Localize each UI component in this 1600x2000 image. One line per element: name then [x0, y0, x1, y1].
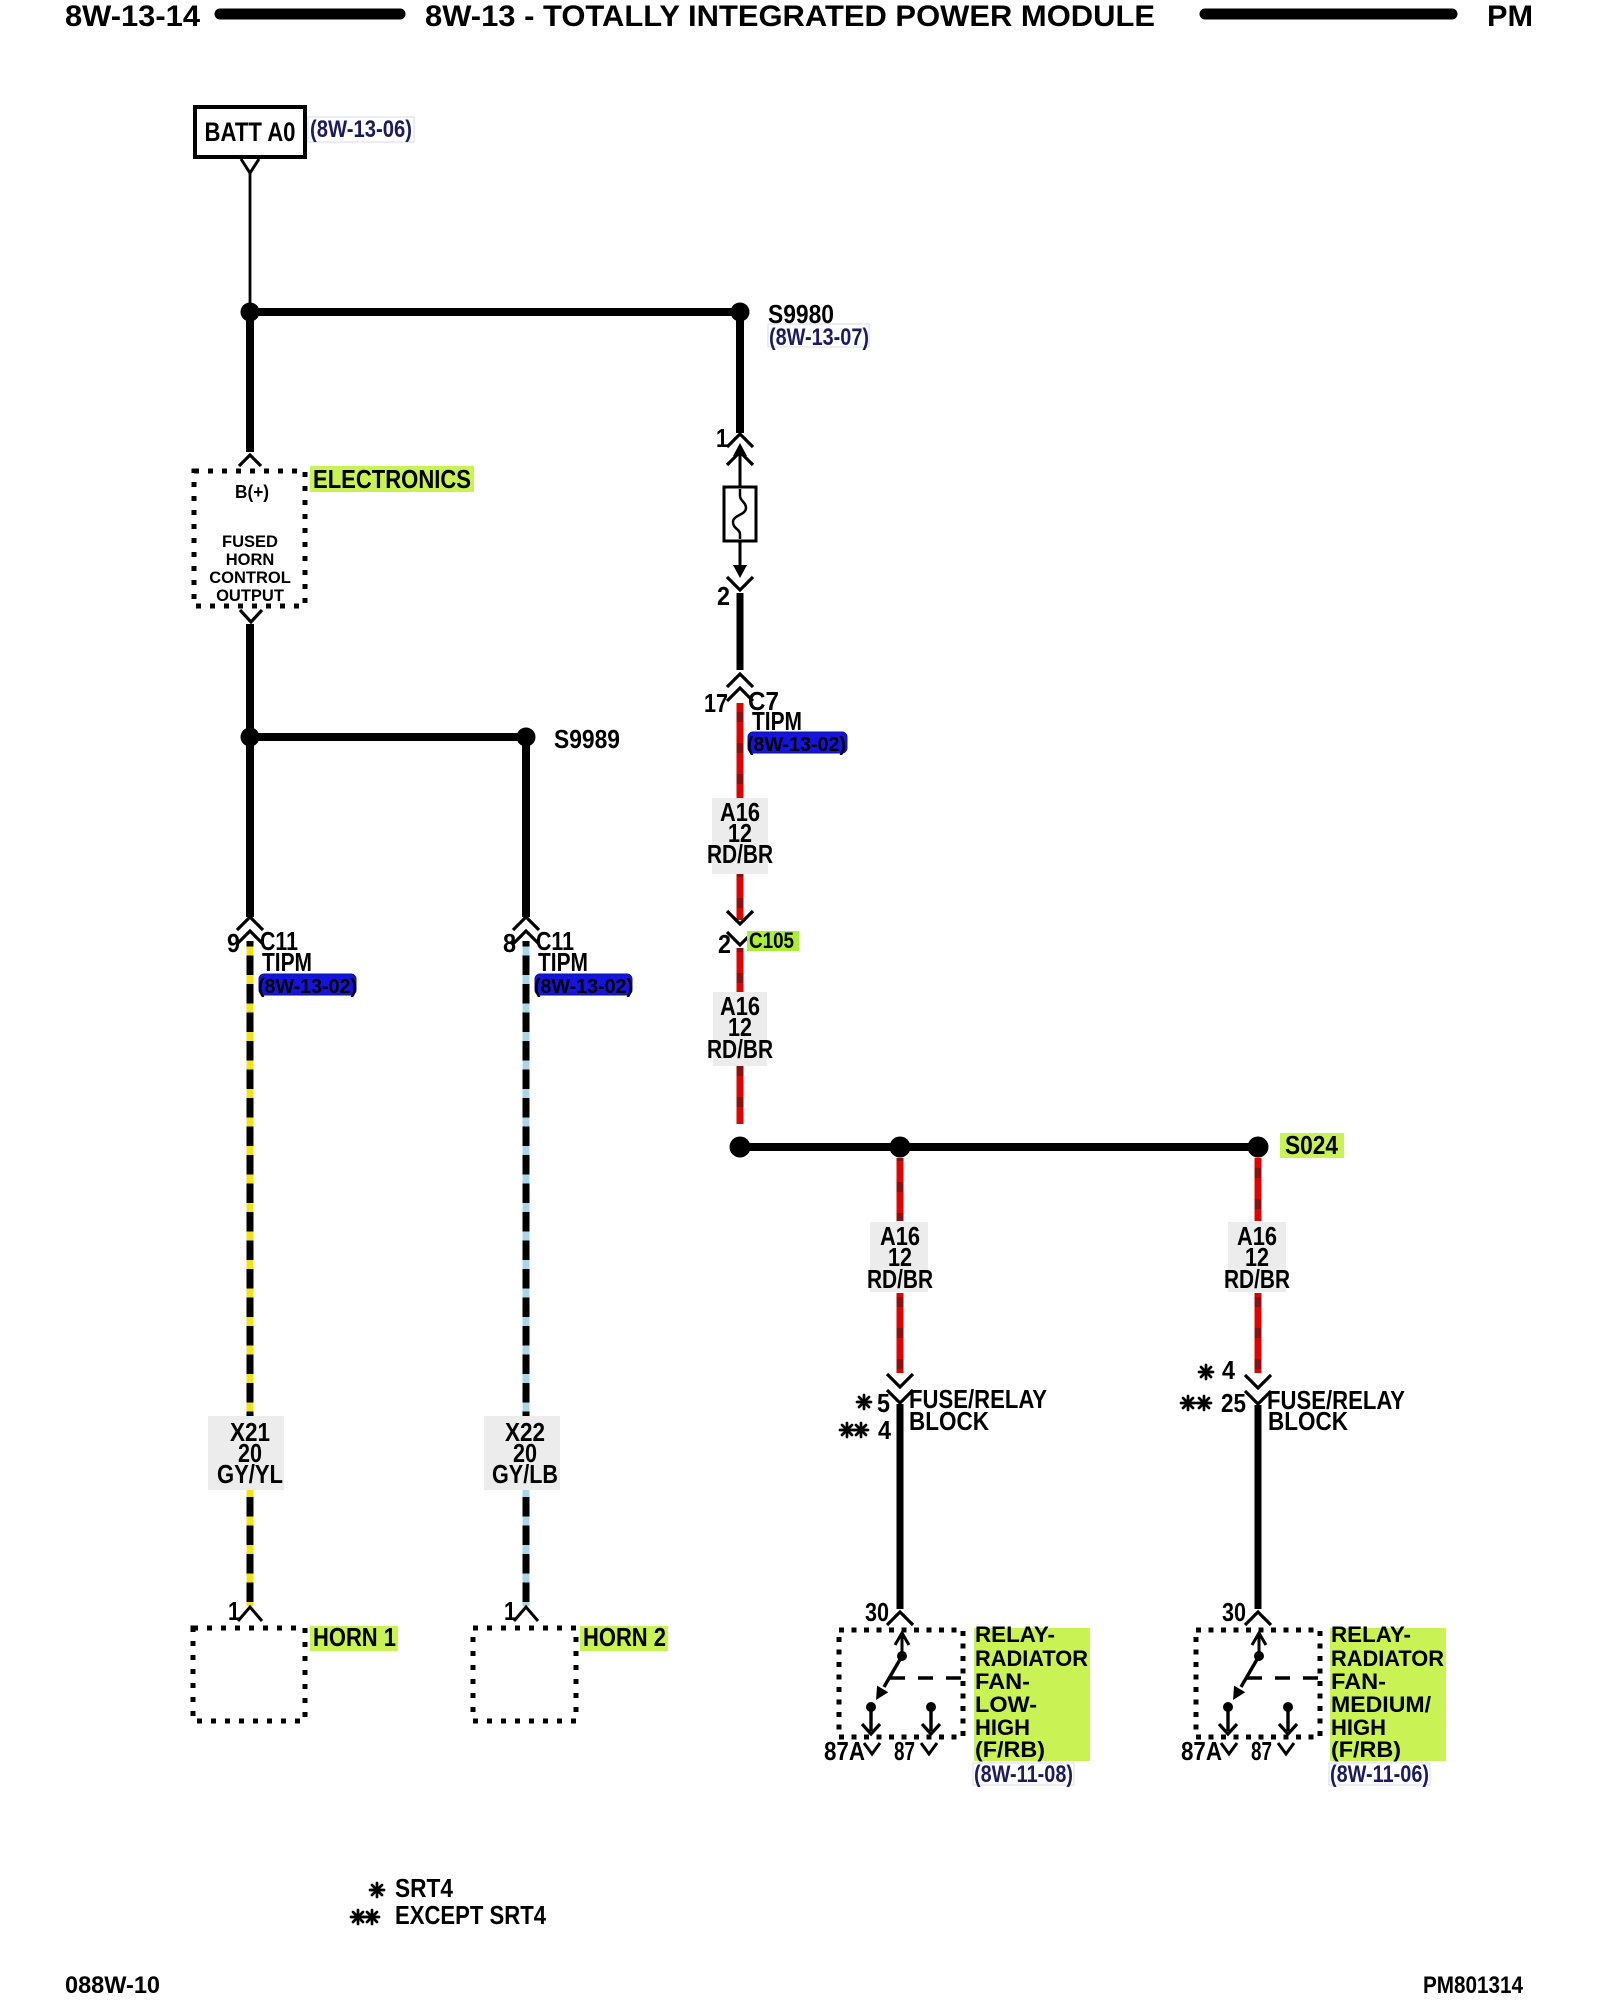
wire splice bus S9980 [250, 308, 740, 316]
svg-text:B(+): B(+) [235, 482, 269, 502]
relay internal switch (medium/high) [1219, 1633, 1320, 1734]
svg-text:25: 25 [1221, 1388, 1246, 1418]
connector pin 2 arrow and chevron [727, 565, 753, 590]
connector pin 1 arrow and chevron [727, 443, 753, 465]
svg-text:S9989: S9989 [554, 724, 620, 754]
connector chevron into relay (low) [887, 1612, 913, 1625]
wire BATT A0 to splice S9980 [249, 173, 252, 304]
svg-text:FAN-: FAN- [1331, 1669, 1386, 1694]
svg-text:4: 4 [878, 1415, 891, 1445]
svg-text:(8W-11-06): (8W-11-06) [1330, 1761, 1429, 1788]
svg-text:87A: 87A [824, 1736, 865, 1766]
svg-text:87A: 87A [1181, 1736, 1222, 1766]
svg-text:PM801314: PM801314 [1423, 1972, 1524, 1999]
connector chevron out of TIPM [240, 610, 262, 622]
junction dot S9980 [731, 303, 750, 322]
svg-text:TIPM: TIPM [538, 947, 588, 977]
header rule right [1205, 9, 1452, 20]
wire A16 continuation (fan medium/high) [1255, 1293, 1262, 1373]
connector chevron into HORN 2 [514, 1607, 538, 1621]
pin 87 (medium/high relay) [1251, 1736, 1294, 1766]
connector symbol below BATT A0 [241, 159, 259, 173]
svg-text:87: 87 [894, 1736, 915, 1766]
HORN 1 box [193, 1628, 305, 1721]
svg-text:FUSED: FUSED [222, 533, 278, 551]
svg-text:RD/BR: RD/BR [707, 1034, 773, 1064]
junction dot S9989 [517, 728, 536, 747]
TIPM fused horn control output box [194, 471, 305, 606]
junction dot S024 [1248, 1137, 1269, 1158]
svg-text:PM: PM [1487, 0, 1533, 33]
svg-text:(8W-13-02): (8W-13-02) [258, 976, 357, 998]
reference link (8W-13-02) horn 1 [258, 974, 357, 998]
pin 87A (low relay) [824, 1736, 880, 1766]
svg-text:SRT4: SRT4 [395, 1873, 453, 1903]
wire S9989 to C11 pin 8 [522, 737, 530, 917]
svg-text:RELAY-: RELAY- [975, 1622, 1055, 1647]
wire S9980 to TIPM B(+) [246, 312, 254, 452]
wire fuse/relay block to relay pin 30 (medium/high) [1255, 1405, 1262, 1609]
connector C7 chevrons [727, 674, 753, 701]
svg-text:BLOCK: BLOCK [909, 1406, 989, 1436]
svg-text:TIPM: TIPM [262, 947, 312, 977]
label RELAY-RADIATOR FAN-LOW-HIGH (F/RB) [974, 1622, 1090, 1762]
svg-text:LOW-: LOW- [975, 1692, 1037, 1717]
fuse element [724, 487, 756, 541]
junction dot left end of S9989 bus [241, 728, 260, 747]
footnote stars 25 (except SRT4 cavity right) [1181, 1388, 1246, 1418]
label A16 12 RD/BR (upper) [707, 797, 773, 874]
wire A16 12 RD/BR S024 to fuse/relay block (medium/high) [1255, 1158, 1262, 1221]
label A16 12 RD/BR (lower) [707, 991, 773, 1066]
label HORN 2 [580, 1622, 668, 1652]
svg-text:8: 8 [503, 928, 516, 958]
svg-text:4: 4 [1222, 1355, 1235, 1385]
footnote stars 4 (except SRT4 cavity) [840, 1415, 891, 1445]
connector chevron into relay (medium/high) [1245, 1612, 1271, 1625]
reference link (8W-13-02) C7 [747, 732, 847, 756]
label FUSE/RELAY BLOCK (low) [909, 1384, 1047, 1436]
reference link (8W-11-08) [973, 1761, 1074, 1788]
wire out of fuse [739, 541, 742, 566]
svg-text:MEDIUM/: MEDIUM/ [1331, 1692, 1431, 1717]
junction dot C105 drop at S024 bus [730, 1137, 751, 1158]
wire A16 12 RD/BR C7 to C105 [737, 703, 744, 920]
svg-text:(8W-13-07): (8W-13-07) [769, 324, 869, 351]
label S024 [1280, 1130, 1344, 1160]
svg-text:17: 17 [704, 688, 728, 718]
wire into fuse [739, 452, 742, 487]
label C105 [747, 928, 799, 953]
svg-text:2: 2 [718, 929, 731, 959]
connector C105 chevrons [727, 911, 753, 945]
svg-text:RADIATOR: RADIATOR [1331, 1646, 1444, 1671]
junction dot fan low branch [890, 1137, 911, 1158]
connector chevron into TIPM [239, 455, 261, 466]
svg-text:RD/BR: RD/BR [1224, 1264, 1290, 1294]
wire TIPM to splice S9989 [246, 624, 254, 737]
reference link (8W-13-02) horn 2 [534, 974, 633, 998]
wire A16 12 RD/BR C105 to S024 [737, 948, 744, 1124]
wire splice bus S9989 [250, 733, 526, 741]
label A16 12 RD/BR (fan medium/high) [1224, 1221, 1290, 1294]
svg-text:HORN 1: HORN 1 [313, 1622, 396, 1652]
svg-text:S024: S024 [1285, 1130, 1338, 1160]
svg-text:(F/RB): (F/RB) [1331, 1737, 1401, 1762]
wire splice bus S024 [740, 1143, 1258, 1151]
connector chevron into HORN 1 [238, 1607, 262, 1621]
svg-text:BLOCK: BLOCK [1268, 1406, 1348, 1436]
svg-text:(8W-13-02): (8W-13-02) [534, 976, 633, 998]
svg-text:9: 9 [227, 928, 240, 958]
label ELECTRONICS [310, 464, 474, 494]
label FUSED HORN CONTROL OUTPUT [209, 533, 291, 605]
relay radiator fan medium/high box [1196, 1630, 1320, 1737]
svg-text:FAN-: FAN- [975, 1669, 1030, 1694]
reference link (8W-13-06) [308, 116, 414, 143]
svg-text:CONTROL: CONTROL [209, 569, 291, 587]
svg-text:8W-13 - TOTALLY INTEGRATED POW: 8W-13 - TOTALLY INTEGRATED POWER MODULE [425, 0, 1155, 33]
wire A16 12 RD/BR S024 to fuse/relay block (low) [897, 1158, 904, 1221]
svg-text:RD/BR: RD/BR [867, 1264, 933, 1294]
label FUSE/RELAY BLOCK (medium/high) [1267, 1385, 1405, 1436]
svg-text:OUTPUT: OUTPUT [216, 587, 284, 605]
connector pin 1 chevron [727, 434, 753, 447]
svg-text:EXCEPT SRT4: EXCEPT SRT4 [395, 1900, 546, 1930]
svg-text:2: 2 [717, 581, 730, 611]
svg-text:1: 1 [716, 423, 728, 453]
wire S9989 to C11 pin 9 [246, 737, 254, 917]
wire X21 20 GY/YL [247, 941, 254, 1606]
wire A16 continuation (fan low) [897, 1293, 904, 1373]
wire fuse/relay block to relay pin 30 (low) [897, 1404, 904, 1609]
connector fuse/relay block chevrons (low) [887, 1374, 913, 1403]
svg-text:(8W-13-02): (8W-13-02) [747, 734, 846, 756]
svg-text:BATT A0: BATT A0 [205, 117, 296, 147]
wire fuse to C7 [737, 593, 744, 670]
junction dot left end of S9980 bus [241, 303, 260, 322]
connector fuse/relay block chevrons (medium/high) [1245, 1375, 1271, 1404]
header rule left [220, 9, 400, 20]
svg-text:8W-13-14: 8W-13-14 [65, 0, 200, 33]
reference link (8W-11-06) [1329, 1761, 1430, 1788]
reference link (8W-13-07) [768, 324, 869, 351]
svg-text:088W-10: 088W-10 [65, 1972, 160, 1999]
relay radiator fan low-high box [839, 1630, 963, 1737]
svg-text:HORN: HORN [226, 551, 275, 569]
HORN 2 box [473, 1628, 576, 1721]
svg-text:30: 30 [1222, 1597, 1246, 1627]
label X21 20 GY/YL [208, 1416, 284, 1490]
legend star SRT4 [370, 1873, 453, 1903]
legend stars EXCEPT SRT4 [351, 1900, 546, 1930]
svg-text:C105: C105 [749, 928, 794, 953]
connector BATT A0 box [195, 107, 305, 157]
svg-text:HORN 2: HORN 2 [583, 1622, 666, 1652]
label X22 20 GY/LB [484, 1416, 560, 1490]
svg-text:GY/LB: GY/LB [492, 1459, 558, 1489]
pin 87 (low relay) [894, 1736, 937, 1766]
svg-text:GY/YL: GY/YL [217, 1459, 283, 1489]
svg-text:30: 30 [865, 1597, 889, 1627]
svg-text:RD/BR: RD/BR [707, 839, 773, 869]
svg-text:1: 1 [504, 1596, 516, 1626]
svg-text:5: 5 [877, 1388, 890, 1418]
footnote star 4 (SRT4 cavity right) [1199, 1355, 1235, 1385]
footnote star 5 (SRT4 cavity) [857, 1388, 890, 1418]
pin 87A (medium/high relay) [1181, 1736, 1237, 1766]
connector C11 pin 8 chevrons [513, 917, 539, 944]
svg-text:(8W-11-08): (8W-11-08) [974, 1761, 1073, 1788]
wire X22 20 GY/LB [523, 941, 530, 1606]
label A16 12 RD/BR (fan low) [867, 1221, 933, 1294]
svg-text:ELECTRONICS: ELECTRONICS [313, 464, 471, 494]
connector C11 pin 9 chevrons [237, 917, 263, 944]
wire S9980 to fuse pin 1 [736, 312, 744, 433]
svg-text:(F/RB): (F/RB) [975, 1737, 1045, 1762]
svg-text:(8W-13-06): (8W-13-06) [310, 116, 412, 143]
svg-text:RADIATOR: RADIATOR [975, 1646, 1088, 1671]
label RELAY-RADIATOR FAN-MEDIUM/HIGH (F/RB) [1330, 1622, 1446, 1762]
svg-text:RELAY-: RELAY- [1331, 1622, 1411, 1647]
svg-text:87: 87 [1251, 1736, 1272, 1766]
svg-text:1: 1 [228, 1596, 240, 1626]
relay internal switch (low) [862, 1633, 963, 1734]
label HORN 1 [310, 1622, 398, 1652]
